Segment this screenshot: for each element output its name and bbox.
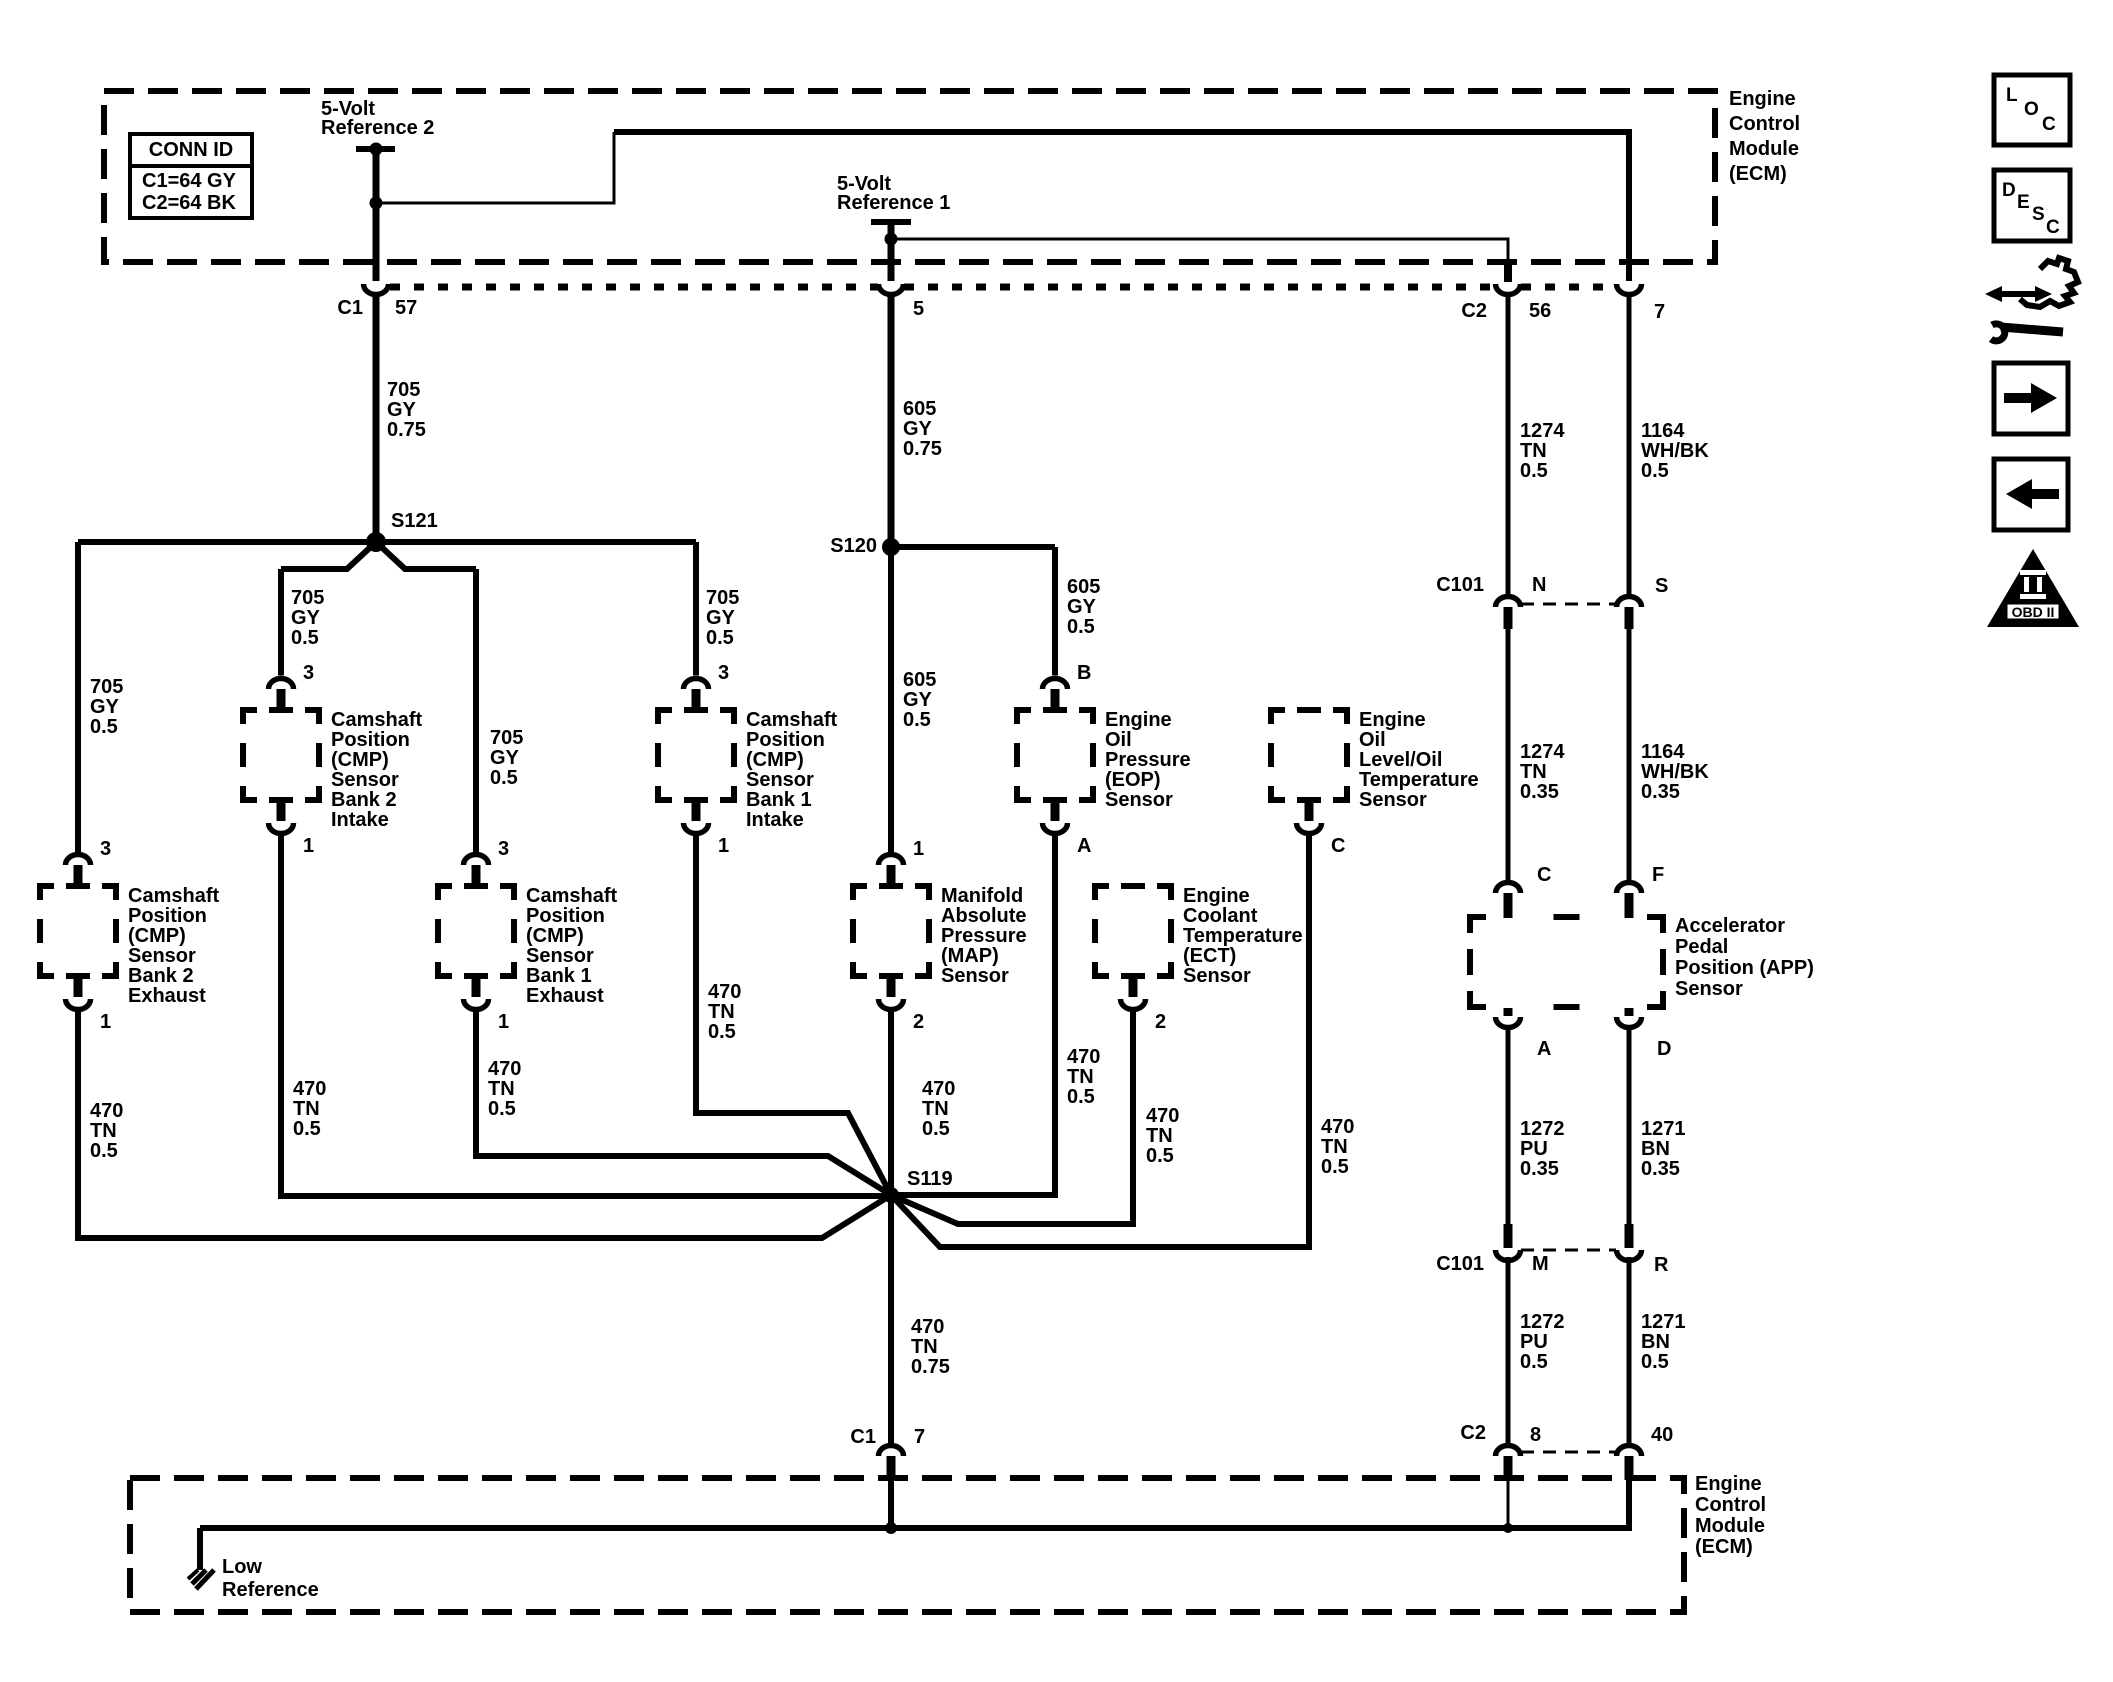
- svg-text:470: 470: [90, 1100, 123, 1122]
- svg-text:Temperature: Temperature: [1183, 925, 1303, 947]
- svg-text:PU: PU: [1520, 1138, 1548, 1160]
- svg-text:0.5: 0.5: [1641, 1351, 1669, 1373]
- svg-text:Engine: Engine: [1729, 88, 1796, 110]
- svg-text:Position (APP): Position (APP): [1675, 957, 1814, 979]
- svg-text:705: 705: [291, 587, 324, 609]
- svg-text:C: C: [1331, 835, 1345, 857]
- svg-text:BN: BN: [1641, 1331, 1670, 1353]
- svg-text:D: D: [2002, 180, 2016, 201]
- svg-text:Bank 2: Bank 2: [128, 965, 194, 987]
- svg-text:TN: TN: [1520, 761, 1547, 783]
- svg-text:Camshaft: Camshaft: [526, 885, 617, 907]
- svg-text:0.5: 0.5: [291, 627, 319, 649]
- svg-text:605: 605: [903, 669, 936, 691]
- svg-text:56: 56: [1529, 300, 1551, 322]
- svg-text:Pressure: Pressure: [941, 925, 1027, 947]
- svg-text:Module: Module: [1729, 138, 1799, 160]
- svg-text:0.35: 0.35: [1520, 781, 1559, 803]
- svg-text:Bank 2: Bank 2: [331, 789, 397, 811]
- svg-text:1: 1: [303, 835, 314, 857]
- svg-text:C2=64 BK: C2=64 BK: [142, 192, 236, 214]
- svg-text:8: 8: [1530, 1424, 1541, 1446]
- svg-text:Pressure: Pressure: [1105, 749, 1191, 771]
- svg-text:Sensor: Sensor: [128, 945, 196, 967]
- svg-text:Bank 1: Bank 1: [746, 789, 812, 811]
- svg-text:E: E: [2017, 192, 2030, 213]
- svg-text:(ECT): (ECT): [1183, 945, 1236, 967]
- svg-text:40: 40: [1651, 1424, 1673, 1446]
- svg-text:TN: TN: [1146, 1125, 1173, 1147]
- svg-text:A: A: [1537, 1038, 1551, 1060]
- svg-text:Control: Control: [1729, 113, 1800, 135]
- svg-text:Absolute: Absolute: [941, 905, 1027, 927]
- svg-text:GY: GY: [903, 689, 933, 711]
- svg-text:Sensor: Sensor: [1359, 789, 1427, 811]
- svg-text:M: M: [1532, 1253, 1549, 1275]
- svg-text:5: 5: [913, 298, 924, 320]
- svg-text:PU: PU: [1520, 1331, 1548, 1353]
- svg-text:705: 705: [706, 587, 739, 609]
- svg-text:Exhaust: Exhaust: [526, 985, 604, 1007]
- svg-text:1164: 1164: [1641, 420, 1685, 442]
- svg-text:0.5: 0.5: [1321, 1156, 1349, 1178]
- svg-text:GY: GY: [90, 696, 120, 718]
- svg-text:TN: TN: [1067, 1066, 1094, 1088]
- svg-text:470: 470: [922, 1078, 955, 1100]
- svg-text:B: B: [1077, 662, 1091, 684]
- svg-text:3: 3: [498, 838, 509, 860]
- svg-text:0.5: 0.5: [488, 1098, 516, 1120]
- svg-text:S: S: [2032, 204, 2045, 225]
- svg-text:1274: 1274: [1520, 741, 1565, 763]
- svg-text:(CMP): (CMP): [128, 925, 186, 947]
- svg-text:470: 470: [1067, 1046, 1100, 1068]
- svg-text:GY: GY: [1067, 596, 1097, 618]
- svg-text:Reference: Reference: [222, 1579, 319, 1601]
- svg-text:0.35: 0.35: [1641, 1158, 1680, 1180]
- svg-text:TN: TN: [293, 1098, 320, 1120]
- svg-text:(ECM): (ECM): [1695, 1536, 1753, 1558]
- svg-text:1271: 1271: [1641, 1311, 1686, 1333]
- svg-text:C1: C1: [337, 297, 363, 319]
- svg-text:0.5: 0.5: [1067, 616, 1095, 638]
- svg-text:(MAP): (MAP): [941, 945, 999, 967]
- svg-text:0.5: 0.5: [708, 1021, 736, 1043]
- svg-text:TN: TN: [922, 1098, 949, 1120]
- svg-text:L: L: [2006, 85, 2018, 106]
- svg-text:Sensor: Sensor: [941, 965, 1009, 987]
- svg-text:WH/BK: WH/BK: [1641, 440, 1709, 462]
- svg-text:1: 1: [913, 838, 924, 860]
- svg-text:O: O: [2024, 99, 2039, 120]
- svg-text:705: 705: [90, 676, 123, 698]
- svg-text:Pedal: Pedal: [1675, 936, 1728, 958]
- svg-text:1274: 1274: [1520, 420, 1565, 442]
- svg-text:Camshaft: Camshaft: [331, 709, 422, 731]
- svg-text:C101: C101: [1436, 1253, 1484, 1275]
- svg-text:Engine: Engine: [1695, 1473, 1762, 1495]
- svg-text:Position: Position: [128, 905, 207, 927]
- svg-text:0.5: 0.5: [90, 716, 118, 738]
- svg-text:(EOP): (EOP): [1105, 769, 1161, 791]
- svg-text:Sensor: Sensor: [1183, 965, 1251, 987]
- svg-text:Manifold: Manifold: [941, 885, 1023, 907]
- svg-text:57: 57: [395, 297, 417, 319]
- svg-text:C: C: [2042, 114, 2056, 135]
- svg-text:TN: TN: [911, 1336, 938, 1358]
- svg-text:Engine: Engine: [1105, 709, 1172, 731]
- svg-text:Exhaust: Exhaust: [128, 985, 206, 1007]
- svg-text:TN: TN: [1321, 1136, 1348, 1158]
- svg-text:2: 2: [913, 1011, 924, 1033]
- svg-text:1: 1: [498, 1011, 509, 1033]
- svg-text:Sensor: Sensor: [526, 945, 594, 967]
- svg-text:Camshaft: Camshaft: [746, 709, 837, 731]
- svg-text:(ECM): (ECM): [1729, 163, 1787, 185]
- svg-text:S119: S119: [907, 1168, 953, 1190]
- svg-text:705: 705: [490, 727, 523, 749]
- svg-text:0.75: 0.75: [911, 1356, 950, 1378]
- svg-text:1: 1: [100, 1011, 111, 1033]
- svg-text:0.35: 0.35: [1520, 1158, 1559, 1180]
- svg-text:C2: C2: [1460, 1422, 1486, 1444]
- svg-text:TN: TN: [90, 1120, 117, 1142]
- svg-text:GY: GY: [903, 418, 933, 440]
- svg-text:470: 470: [708, 981, 741, 1003]
- svg-text:S121: S121: [391, 510, 438, 532]
- svg-text:0.5: 0.5: [90, 1140, 118, 1162]
- svg-text:0.5: 0.5: [1520, 1351, 1548, 1373]
- svg-text:Engine: Engine: [1359, 709, 1426, 731]
- svg-text:(CMP): (CMP): [746, 749, 804, 771]
- svg-text:3: 3: [718, 662, 729, 684]
- svg-text:0.5: 0.5: [903, 709, 931, 731]
- svg-text:0.5: 0.5: [1520, 460, 1548, 482]
- svg-text:3: 3: [303, 662, 314, 684]
- svg-text:(CMP): (CMP): [526, 925, 584, 947]
- svg-text:(CMP): (CMP): [331, 749, 389, 771]
- svg-text:Reference 1: Reference 1: [837, 192, 950, 214]
- svg-text:Coolant: Coolant: [1183, 905, 1258, 927]
- svg-text:C1=64 GY: C1=64 GY: [142, 170, 237, 192]
- svg-text:Level/Oil: Level/Oil: [1359, 749, 1442, 771]
- svg-text:0.75: 0.75: [387, 419, 426, 441]
- svg-text:Sensor: Sensor: [1675, 978, 1743, 1000]
- svg-text:S120: S120: [830, 535, 877, 557]
- svg-text:Position: Position: [331, 729, 410, 751]
- svg-text:0.75: 0.75: [903, 438, 942, 460]
- svg-text:Sensor: Sensor: [331, 769, 399, 791]
- svg-text:S: S: [1655, 575, 1668, 597]
- svg-text:470: 470: [488, 1058, 521, 1080]
- svg-text:Position: Position: [526, 905, 605, 927]
- svg-text:D: D: [1657, 1038, 1671, 1060]
- svg-text:TN: TN: [488, 1078, 515, 1100]
- svg-text:2: 2: [1155, 1011, 1166, 1033]
- svg-text:7: 7: [914, 1426, 925, 1448]
- svg-text:Accelerator: Accelerator: [1675, 915, 1785, 937]
- svg-text:GY: GY: [490, 747, 520, 769]
- svg-text:GY: GY: [706, 607, 736, 629]
- svg-text:Sensor: Sensor: [746, 769, 814, 791]
- svg-text:1271: 1271: [1641, 1118, 1686, 1140]
- svg-text:OBD II: OBD II: [2012, 604, 2055, 620]
- svg-text:C2: C2: [1461, 300, 1487, 322]
- svg-text:0.5: 0.5: [1641, 460, 1669, 482]
- svg-text:1272: 1272: [1520, 1311, 1565, 1333]
- svg-text:GY: GY: [387, 399, 417, 421]
- svg-text:Low: Low: [222, 1556, 262, 1578]
- svg-text:0.35: 0.35: [1641, 781, 1680, 803]
- svg-text:Intake: Intake: [746, 809, 804, 831]
- svg-text:GY: GY: [291, 607, 321, 629]
- svg-text:1164: 1164: [1641, 741, 1685, 763]
- svg-text:N: N: [1532, 574, 1546, 596]
- svg-text:0.5: 0.5: [922, 1118, 950, 1140]
- svg-text:C: C: [2046, 217, 2060, 238]
- svg-text:705: 705: [387, 379, 420, 401]
- svg-text:F: F: [1652, 864, 1664, 886]
- svg-text:Oil: Oil: [1105, 729, 1132, 751]
- svg-text:C: C: [1537, 864, 1551, 886]
- svg-text:0.5: 0.5: [706, 627, 734, 649]
- svg-text:C1: C1: [850, 1426, 876, 1448]
- svg-text:CONN ID: CONN ID: [149, 139, 233, 161]
- svg-text:Reference 2: Reference 2: [321, 117, 434, 139]
- svg-text:Engine: Engine: [1183, 885, 1250, 907]
- svg-text:605: 605: [903, 398, 936, 420]
- svg-text:605: 605: [1067, 576, 1100, 598]
- svg-text:BN: BN: [1641, 1138, 1670, 1160]
- svg-text:7: 7: [1654, 301, 1665, 323]
- svg-text:0.5: 0.5: [1146, 1145, 1174, 1167]
- svg-text:Sensor: Sensor: [1105, 789, 1173, 811]
- svg-text:3: 3: [100, 838, 111, 860]
- svg-text:Control: Control: [1695, 1494, 1766, 1516]
- svg-text:TN: TN: [708, 1001, 735, 1023]
- svg-text:Oil: Oil: [1359, 729, 1386, 751]
- svg-text:Module: Module: [1695, 1515, 1765, 1537]
- svg-text:0.5: 0.5: [490, 767, 518, 789]
- svg-text:Intake: Intake: [331, 809, 389, 831]
- svg-text:A: A: [1077, 835, 1091, 857]
- svg-text:470: 470: [1146, 1105, 1179, 1127]
- svg-text:470: 470: [1321, 1116, 1354, 1138]
- svg-text:470: 470: [293, 1078, 326, 1100]
- svg-text:0.5: 0.5: [293, 1118, 321, 1140]
- svg-text:0.5: 0.5: [1067, 1086, 1095, 1108]
- svg-text:470: 470: [911, 1316, 944, 1338]
- svg-text:Temperature: Temperature: [1359, 769, 1479, 791]
- svg-text:R: R: [1654, 1254, 1669, 1276]
- svg-text:WH/BK: WH/BK: [1641, 761, 1709, 783]
- svg-text:TN: TN: [1520, 440, 1547, 462]
- svg-text:C101: C101: [1436, 574, 1484, 596]
- svg-text:Bank 1: Bank 1: [526, 965, 592, 987]
- svg-text:Position: Position: [746, 729, 825, 751]
- svg-text:Camshaft: Camshaft: [128, 885, 219, 907]
- svg-text:1272: 1272: [1520, 1118, 1565, 1140]
- svg-text:1: 1: [718, 835, 729, 857]
